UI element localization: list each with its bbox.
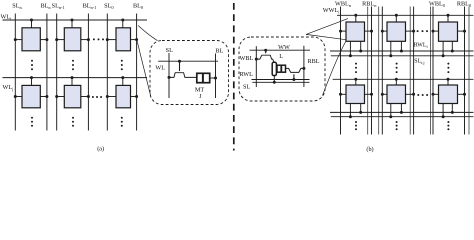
- svg-text:BL0: BL0: [133, 3, 144, 11]
- svg-text:WBL0: WBL0: [429, 0, 446, 8]
- vertical ellipsis below row-j (a): [31, 117, 123, 127]
- wire RWL_j horizontal: [330, 111, 474, 113]
- wire RWL_i horizontal: [330, 50, 474, 52]
- junction RWL-gate (bubble b): [292, 78, 295, 81]
- junction WWL-gate (bubble b): [264, 49, 267, 52]
- svg-text:SL: SL: [166, 47, 173, 54]
- bit-cell b row-j col-m: [381, 78, 415, 118]
- svg-text:SLn-1: SLn-1: [52, 3, 65, 11]
- net SL_0 vertical line: [106, 14, 108, 131]
- net BL (bubble a): [215, 54, 217, 99]
- wire SL (bubble b): [252, 81, 309, 83]
- net SL_n vertical line: [14, 14, 16, 131]
- dashed divider line: [233, 3, 235, 151]
- vertical ellipsis below row-j (b): [355, 121, 449, 130]
- net BL_0 vertical line: [136, 14, 138, 131]
- unlabeled companion line left of WBL_m: [378, 7, 380, 135]
- junction SL (bubble b): [273, 81, 276, 84]
- callout funnel line lower (a): [137, 40, 151, 97]
- transistor write gate stub (bubble b): [265, 50, 267, 53]
- net RBL_m vertical line: [413, 7, 415, 135]
- junction BL-branch (bubble a): [214, 77, 217, 80]
- svg-text:(b): (b): [366, 146, 373, 153]
- wire WWL (bubble b): [250, 49, 311, 51]
- net WBL_0 vertical line: [432, 7, 434, 135]
- bit-cell b row-j col-n: [339, 78, 373, 118]
- bit-cell b row-j col-0: [432, 78, 467, 118]
- wire SL_j horizontal: [331, 116, 474, 118]
- bit-cell b row-i col-0: [432, 14, 467, 58]
- svg-text:(a): (a): [97, 146, 104, 153]
- svg-text:BLn: BLn: [40, 3, 51, 11]
- svg-text:WW: WW: [278, 44, 290, 51]
- unlabeled companion line left of WBL_0: [429, 7, 431, 135]
- net RBL_n vertical line: [371, 7, 373, 135]
- svg-text:SL0: SL0: [104, 3, 114, 11]
- unlabeled companion line left of RBL_m: [409, 7, 411, 135]
- svg-text:L: L: [279, 53, 283, 60]
- net WBL_n vertical line: [340, 7, 342, 135]
- svg-text:BLn-1: BLn-1: [83, 3, 97, 11]
- bit-cell a row-j col-n: [14, 76, 49, 108]
- svg-text:RWLi: RWLi: [414, 43, 429, 50]
- transistor read gate stub (bubble b): [293, 74, 295, 79]
- transistor write channel (bubble b): [256, 55, 274, 62]
- junction RBL-read (bubble b): [302, 67, 305, 70]
- wire SL_i horizontal: [331, 55, 474, 57]
- ellipsis columns row-j (b): [417, 94, 428, 96]
- bit-cell a row-i col-n: [14, 19, 49, 51]
- net SL (bubble a): [168, 53, 170, 98]
- callout funnel line upper (b): [306, 19, 348, 35]
- wire WWL_j horizontal: [333, 78, 474, 80]
- ellipsis columns row-i (b): [417, 30, 428, 32]
- vertical ellipsis between rows (b): [355, 63, 449, 74]
- net BL_n vertical line: [46, 14, 48, 131]
- net SL_n-1 vertical line: [56, 14, 58, 131]
- bit-cell b row-i col-m: [381, 14, 415, 58]
- callout funnel line middle (b): [306, 34, 346, 39]
- bit-cell a row-i col-n-1: [55, 19, 90, 51]
- wire MTJ to BL (bubble a): [210, 77, 216, 79]
- ellipsis columns row-i (a): [93, 38, 104, 40]
- svg-text:WL: WL: [155, 64, 165, 71]
- heavy-metal strip device (bubble b): [277, 65, 286, 72]
- bit-cell a row-j col-n-1: [55, 76, 90, 108]
- transistor read channel (bubble b): [286, 68, 304, 72]
- net WBL (bubble b): [255, 46, 257, 87]
- wire WWL_i horizontal: [337, 14, 474, 16]
- junction WBL-write (bubble b): [255, 58, 258, 61]
- unlabeled companion line right of RBL_0: [468, 7, 470, 135]
- svg-text:SLi,j: SLi,j: [414, 58, 424, 66]
- net RBL_0 vertical line: [464, 7, 466, 135]
- callout bubble (b): [239, 37, 325, 101]
- svg-text:WWLi: WWLi: [323, 7, 340, 15]
- net RBL (bubble b): [303, 46, 305, 87]
- svg-text:RBL: RBL: [308, 58, 320, 65]
- wire WL_j horizontal: [3, 77, 148, 79]
- MTJ device (bubble a): [197, 73, 210, 82]
- junction SL-branch (bubble a): [168, 76, 171, 79]
- svg-text:WBL: WBL: [240, 55, 254, 62]
- net BL_n-1 vertical line: [87, 14, 89, 131]
- svg-text:SLn: SLn: [12, 3, 22, 11]
- ellipsis columns row-j (a): [92, 96, 102, 98]
- svg-text:RBL0: RBL0: [457, 0, 472, 8]
- junction WL-gate (bubble a): [178, 60, 181, 63]
- unlabeled companion line left of RBL_n: [367, 7, 369, 135]
- transistor M1 gate stub (bubble a): [179, 61, 181, 71]
- svg-text:WLj: WLj: [3, 84, 14, 92]
- wire WL_i horizontal: [3, 19, 148, 21]
- svg-text:SL: SL: [243, 84, 250, 91]
- wire MTJ to SL (bubble b): [273, 76, 275, 83]
- callout bubble (a): [150, 41, 229, 105]
- net WBL_m vertical line: [381, 7, 383, 135]
- svg-text:RBLn: RBLn: [362, 0, 377, 8]
- svg-text:BL: BL: [215, 47, 223, 54]
- transistor M1 channel (bubble a): [169, 73, 197, 78]
- bit-cell a row-i col-0: [106, 19, 138, 51]
- bit-cell a row-j col-0: [106, 76, 138, 108]
- svg-text:RWL: RWL: [240, 71, 254, 78]
- callout funnel line upper (a): [138, 26, 157, 41]
- vertical ellipsis between rows (a): [31, 60, 123, 71]
- wire WL (bubble a): [158, 60, 218, 62]
- MTJ vertical device (bubble b): [272, 62, 276, 75]
- svg-text:J: J: [199, 93, 202, 100]
- bit-cell b row-i col-n: [339, 14, 373, 58]
- callout funnel line lower (b): [323, 41, 347, 96]
- svg-text:WLi: WLi: [1, 14, 13, 22]
- wire RWL (bubble b): [252, 79, 310, 81]
